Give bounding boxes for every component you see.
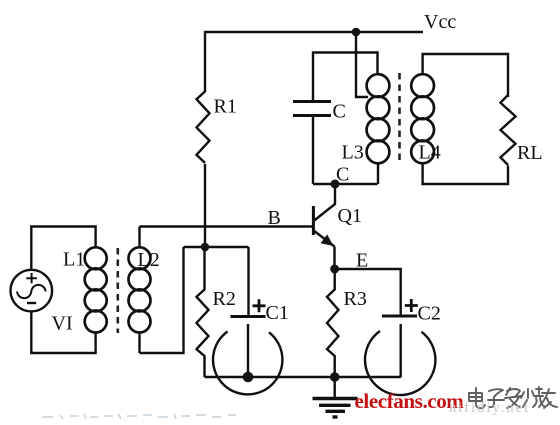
svg-text:hifidiy.net: hifidiy.net	[449, 400, 530, 416]
node C1 ground junction dot	[243, 372, 254, 383]
wire R1 bottom lead	[204, 164, 206, 247]
ground bar 1	[313, 397, 358, 400]
svg-text:C2: C2	[418, 303, 441, 325]
svg-text:RL: RL	[517, 142, 543, 164]
wire E to C2	[335, 269, 401, 316]
ground lead	[334, 377, 336, 398]
svg-text:C1: C1	[266, 302, 289, 324]
resistor R2	[197, 247, 209, 377]
node Vcc junction dot	[352, 28, 361, 37]
transformer core dashed line L1/L2	[117, 248, 120, 333]
svg-text:L4: L4	[419, 142, 441, 164]
inductor L1	[85, 247, 107, 332]
watermark chinese characters	[469, 387, 557, 408]
svg-text:Q1: Q1	[338, 205, 362, 227]
svg-text:R1: R1	[214, 96, 237, 118]
capacitor C1 plate	[231, 315, 266, 318]
source VI plus	[26, 273, 37, 283]
transistor Q1 emitter arrow	[321, 234, 334, 246]
capacitor C plate bottom	[293, 114, 331, 117]
svg-text:L2: L2	[138, 249, 160, 271]
wire Vcc rail	[205, 31, 423, 33]
node C collector junction dot	[331, 180, 340, 189]
node E junction dot	[330, 265, 339, 274]
svg-text:C: C	[333, 101, 346, 123]
svg-text:L1: L1	[63, 249, 85, 271]
wire secondary loop bottom	[423, 163, 508, 184]
wire input loop top	[31, 227, 95, 270]
transistor Q1 base bar	[312, 206, 315, 235]
transistor Q1 emitter line	[314, 231, 335, 247]
capacitor C2 curved plate arc	[365, 331, 435, 395]
inductor L3	[367, 74, 390, 163]
wire bias node horizontal	[184, 246, 249, 248]
wire input loop bottom	[31, 311, 95, 353]
wire collector lead	[314, 184, 335, 221]
resistor R1	[197, 92, 210, 164]
label plus C2	[405, 299, 418, 312]
wire Vcc feed to L3 tap	[356, 32, 368, 97]
source VI sine	[17, 285, 46, 298]
resistor R3	[327, 269, 339, 377]
svg-text:elecfans.com: elecfans.com	[355, 389, 465, 413]
wire R1 top lead	[204, 31, 206, 92]
wire L2 return	[140, 247, 184, 353]
capacitor C1 bottom lead	[247, 324, 249, 377]
wire base lead	[140, 225, 314, 227]
ground bar 2	[319, 404, 351, 407]
wire tank top	[313, 53, 378, 102]
node R3 ground junction dot	[330, 372, 340, 382]
wire L3 bottom lead	[377, 163, 379, 184]
wire ground rail	[205, 376, 401, 378]
resistor RL	[501, 95, 516, 165]
capacitor C1 top lead	[247, 247, 249, 317]
capacitor C plate top	[293, 100, 331, 103]
source VI minus	[27, 302, 36, 304]
svg-text:L3: L3	[342, 142, 364, 164]
wire emitter lead	[333, 247, 335, 270]
wire secondary loop top	[423, 54, 508, 97]
wire tank bottom	[313, 183, 378, 185]
svg-text:VI: VI	[52, 313, 73, 335]
inductor L4	[411, 74, 434, 163]
wire C bottom lead	[312, 116, 314, 185]
inductor L2	[129, 247, 151, 332]
node bias junction dot	[201, 243, 210, 252]
capacitor C2 bottom lead	[400, 324, 402, 378]
capacitor C2 plate	[382, 315, 417, 318]
wire L2 bottom lead	[138, 332, 140, 353]
source VI circle	[11, 270, 53, 312]
ground bar 4	[333, 415, 338, 418]
label plus C1	[253, 299, 266, 312]
capacitor C1 curved plate arc	[213, 332, 282, 395]
wire L2 top lead	[138, 227, 140, 248]
svg-text:R3: R3	[344, 288, 367, 310]
transformer core dashed line L3/L4	[398, 73, 401, 164]
ground bar 3	[326, 410, 346, 413]
svg-text:R2: R2	[213, 288, 236, 310]
caption sliver bottom-left	[42, 414, 236, 419]
svg-text:C: C	[336, 164, 349, 186]
svg-text:Vcc: Vcc	[424, 11, 456, 33]
